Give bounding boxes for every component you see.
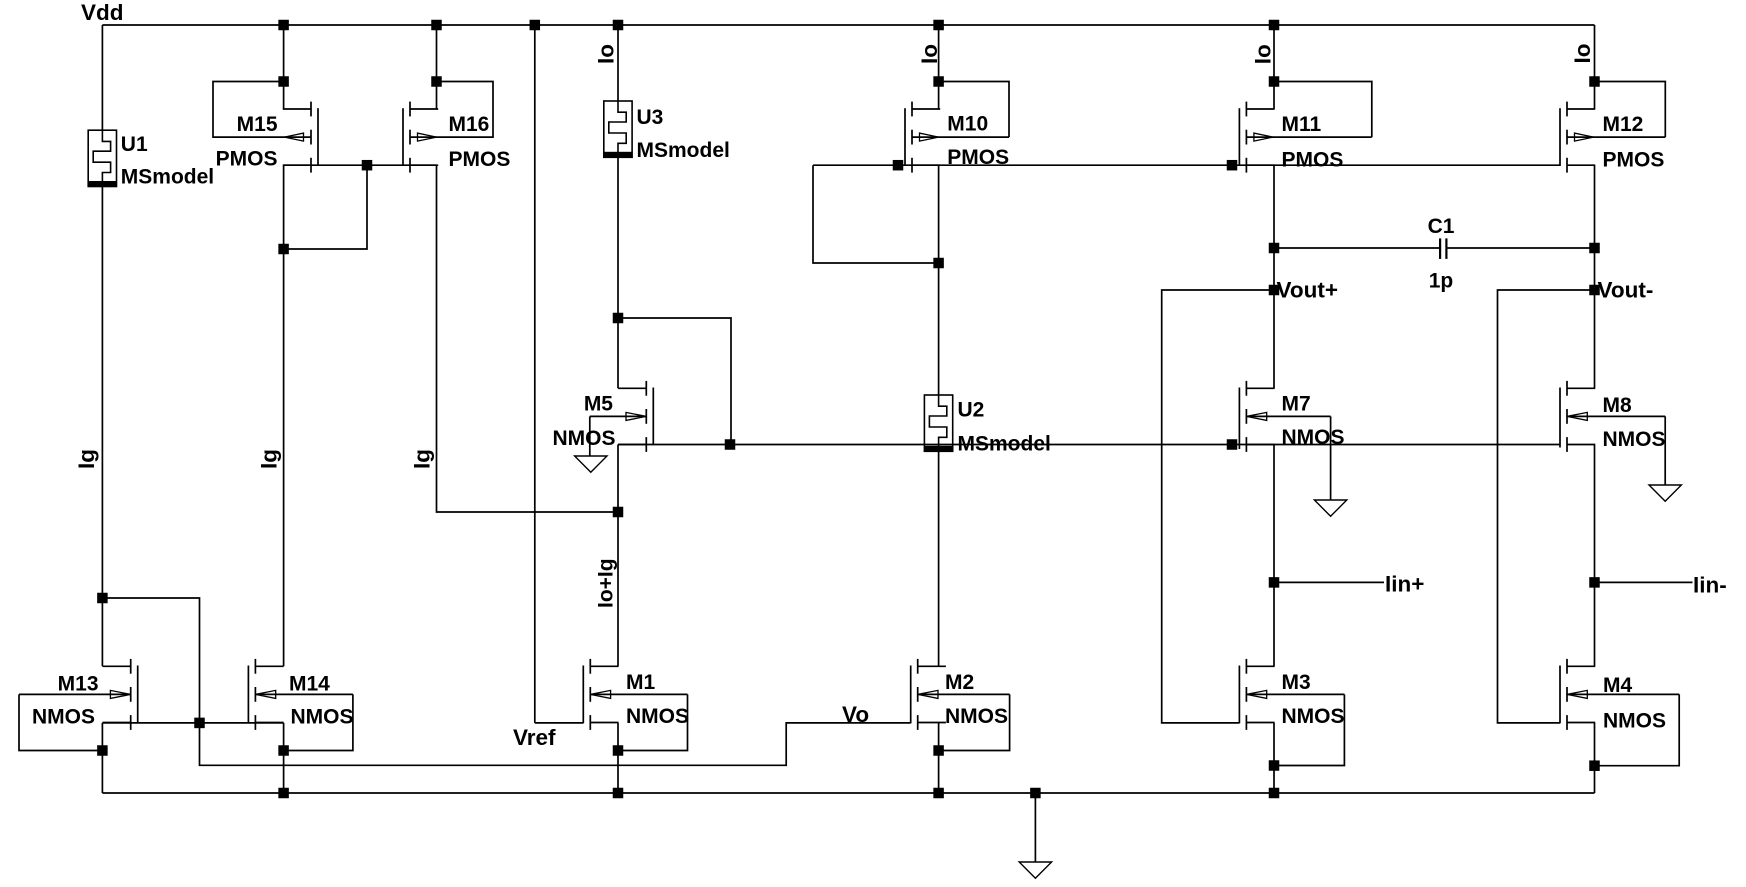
transistor M16 (PMOS): [403, 102, 438, 173]
wire M3 source down: [1273, 723, 1275, 793]
memristor U2: [924, 395, 952, 451]
junction M1 source/rail: [613, 788, 623, 798]
wire Vout+ to M3 gate: [1162, 290, 1274, 723]
value label NMOS (M1): [626, 705, 689, 728]
svg-text:U2: U2: [958, 399, 985, 422]
transistor M3 (NMOS): [1239, 659, 1344, 730]
label M8: [1603, 394, 1632, 417]
wire C1 left: [1274, 247, 1440, 249]
junction M13/M14 gate/Vo: [195, 718, 205, 728]
svg-text:MSmodel: MSmodel: [121, 166, 214, 189]
wire M1 bulk loop: [618, 694, 688, 750]
wire M14 source down: [283, 723, 285, 793]
transistor M10 (PMOS): [905, 102, 1009, 173]
junction M14 source/rail: [279, 788, 289, 798]
junction M14 source/bulk: [279, 746, 289, 756]
svg-text:M15: M15: [237, 113, 278, 136]
transistor M13 (NMOS): [19, 659, 138, 730]
svg-text:NMOS: NMOS: [1282, 426, 1345, 449]
value label NMOS (M14): [291, 706, 354, 729]
junction M5 drain tap: [613, 313, 623, 323]
svg-text:PMOS: PMOS: [449, 148, 511, 171]
svg-text:Iin-: Iin-: [1693, 573, 1727, 598]
transistor M14 (NMOS): [248, 659, 353, 730]
junction C1 left: [1269, 243, 1279, 253]
junction Vdd/M11: [1269, 20, 1279, 30]
wire ground stub: [1034, 793, 1036, 862]
label M1: [626, 671, 655, 694]
junction M4 source/bulk: [1590, 761, 1600, 771]
junction M15 source/bulk: [279, 244, 289, 254]
svg-text:Vout-: Vout-: [1598, 278, 1654, 303]
svg-text:Iin+: Iin+: [1385, 572, 1424, 597]
label M5: [584, 393, 613, 416]
svg-text:M3: M3: [1282, 671, 1311, 694]
transistor M10 drain wire: [938, 25, 940, 109]
label M2: [945, 671, 974, 694]
transistor M11 drain wire: [1273, 25, 1275, 109]
wire U1 to M13 drain: [101, 187, 103, 667]
junction Vo tap: [98, 593, 108, 603]
svg-text:Io: Io: [593, 44, 618, 64]
label M11: [1282, 113, 1322, 136]
label M3: [1282, 671, 1311, 694]
label M12: [1603, 113, 1644, 136]
net label Vout+: [1277, 278, 1338, 303]
wire M15 source down: [283, 165, 285, 666]
svg-text:NMOS: NMOS: [553, 427, 616, 450]
wire M13 bulk loop: [19, 694, 102, 750]
transistor M12 drain wire: [1594, 25, 1596, 109]
value label MSmodel (U2): [958, 433, 1051, 456]
svg-text:NMOS: NMOS: [32, 706, 95, 729]
wire M7 bulk to ground: [1330, 416, 1332, 500]
wire M14 bulk loop: [284, 694, 353, 750]
value label 1p: [1429, 270, 1454, 293]
wire M5 drain loop: [618, 318, 731, 445]
value label MSmodel (U1): [121, 166, 214, 189]
svg-text:M5: M5: [584, 393, 613, 416]
net label Vdd: [81, 0, 124, 25]
value label NMOS (M4): [1603, 710, 1666, 733]
wire M2 source down: [938, 723, 940, 793]
capacitor C1: [1440, 238, 1446, 259]
transistor M12 (PMOS): [1560, 102, 1665, 173]
junction M10 source: [934, 258, 944, 268]
wire ground rail: [102, 792, 1594, 794]
label M15: [237, 113, 278, 136]
junction M1 source/bulk: [613, 746, 623, 756]
value label NMOS (M3): [1282, 705, 1345, 728]
wire M16 source down: [437, 165, 619, 512]
svg-text:Vdd: Vdd: [81, 0, 124, 25]
junction Vdd/M15: [279, 20, 289, 30]
wire U2 to M2 drain: [938, 451, 940, 666]
label M10: [947, 113, 988, 136]
label U1: [121, 133, 148, 156]
ground (main): [1019, 862, 1051, 878]
wire M4 bulk loop: [1595, 694, 1680, 765]
junction M10 bulk: [893, 160, 903, 170]
transistor M15 drain wire: [283, 25, 285, 109]
junction ground tap: [1031, 788, 1041, 798]
wire M4 source down: [1594, 723, 1596, 793]
wire M11 gate loop: [1274, 82, 1372, 138]
svg-text:PMOS: PMOS: [1603, 149, 1665, 172]
wire M8 source down: [1594, 445, 1596, 667]
wire M8 drain up: [1594, 290, 1596, 388]
wire M12 gate loop: [1595, 82, 1666, 138]
svg-text:Ig: Ig: [74, 449, 99, 469]
wire Vref to M1 gate: [535, 722, 584, 724]
label M4: [1603, 674, 1632, 697]
wire M3 bulk loop: [1274, 694, 1344, 765]
wire M10 to U2: [938, 263, 940, 395]
current label Ig (second): [257, 449, 282, 469]
svg-text:Ig: Ig: [257, 449, 282, 469]
svg-text:Io: Io: [917, 44, 942, 64]
transistor M1 (NMOS): [583, 659, 687, 730]
svg-text:M1: M1: [626, 671, 655, 694]
current label Ig (third): [410, 449, 435, 469]
current label Io (fourth): [1570, 44, 1595, 64]
junction M11 bulk: [1227, 160, 1237, 170]
value label PMOS (M11): [1282, 149, 1344, 172]
wire gate line (M5-M7-M8): [618, 444, 1560, 446]
wire Vdd to U3: [617, 25, 619, 101]
junction Vout+: [1269, 285, 1279, 295]
junction M15/M16 bulk: [362, 160, 372, 170]
current label Io (third): [1251, 44, 1276, 64]
svg-text:Vref: Vref: [513, 725, 556, 750]
transistor M2 (NMOS): [911, 659, 1010, 730]
transistor M7 (NMOS): [1239, 381, 1330, 452]
label M7: [1282, 393, 1311, 416]
wire M8 bulk to ground: [1664, 416, 1666, 485]
junction M15 gate/drain: [279, 77, 289, 87]
ground (M7): [1314, 500, 1346, 516]
net label Vref: [513, 725, 556, 750]
svg-text:MSmodel: MSmodel: [958, 433, 1051, 456]
transistor M15 (PMOS): [283, 102, 318, 173]
label U3: [637, 106, 664, 129]
svg-text:MSmodel: MSmodel: [637, 139, 730, 162]
value label NMOS (M2): [945, 705, 1008, 728]
current label Ig (left): [74, 449, 99, 469]
transistor M4 (NMOS): [1560, 659, 1679, 730]
value label NMOS (M7): [1282, 426, 1345, 449]
value label PMOS (M16): [449, 148, 511, 171]
wire U3 to M5 drain: [617, 157, 619, 388]
svg-text:Io+Ig: Io+Ig: [595, 558, 618, 608]
wire Vout- to M4 gate: [1498, 290, 1595, 723]
junction Iin-: [1590, 578, 1600, 588]
svg-text:1p: 1p: [1429, 270, 1454, 293]
wire Vdd rail: [102, 24, 1594, 26]
value label MSmodel (U3): [637, 139, 730, 162]
wire M7 source down: [1273, 445, 1275, 667]
wire Vdd to U1: [101, 25, 103, 130]
svg-text:NMOS: NMOS: [1603, 428, 1666, 451]
wire M5 gate to ground: [589, 416, 591, 456]
wire Vo net: [102, 598, 910, 765]
wire M7 drain up: [1273, 290, 1275, 388]
svg-text:Vo: Vo: [842, 702, 869, 727]
ground (M5): [575, 456, 607, 472]
transistor M8 (NMOS): [1560, 381, 1665, 452]
svg-text:NMOS: NMOS: [1282, 705, 1345, 728]
wire M1 source down: [617, 723, 619, 793]
value label PMOS (M12): [1603, 149, 1665, 172]
wire M15 gate loop: [213, 82, 285, 138]
memristor U1: [88, 130, 116, 186]
value label NMOS (M5): [553, 427, 616, 450]
wire Iin-: [1595, 581, 1693, 583]
junction Iin+: [1269, 578, 1279, 588]
value label NMOS (M8): [1603, 428, 1666, 451]
ground (M8): [1649, 485, 1681, 501]
wire M10 bulk line: [813, 164, 1560, 166]
wire Io+Ig column: [617, 445, 619, 667]
wire Iin+: [1274, 581, 1384, 583]
junction M3 source/bulk: [1269, 761, 1279, 771]
svg-text:U1: U1: [121, 133, 148, 156]
svg-text:NMOS: NMOS: [291, 706, 354, 729]
svg-text:PMOS: PMOS: [216, 148, 278, 171]
label M13: [58, 673, 99, 696]
svg-text:M12: M12: [1603, 113, 1644, 136]
svg-text:PMOS: PMOS: [1282, 149, 1344, 172]
value label NMOS (M13): [32, 706, 95, 729]
wire Vref column: [534, 25, 536, 723]
junction Vdd/M16: [432, 20, 442, 30]
label U2: [958, 399, 985, 422]
svg-text:M8: M8: [1603, 394, 1632, 417]
junction Vdd/U3: [613, 20, 623, 30]
junction M2 source/rail: [934, 788, 944, 798]
wire M16 gate loop: [435, 82, 493, 138]
svg-text:Io: Io: [1251, 44, 1276, 64]
wire M15/M16 bulk tie: [284, 165, 437, 249]
svg-text:M4: M4: [1603, 674, 1632, 697]
junction M3 source/rail: [1269, 788, 1279, 798]
svg-text:M7: M7: [1282, 393, 1311, 416]
current label Io (first): [593, 44, 618, 64]
transistor M16 drain wire: [436, 25, 438, 109]
junction M7 gate line: [1227, 440, 1237, 450]
junction M5 drain loop/gate line: [725, 440, 735, 450]
svg-text:Ig: Ig: [410, 449, 435, 469]
svg-text:C1: C1: [1428, 215, 1455, 238]
junction Vout-: [1590, 285, 1600, 295]
wire M10 source down: [938, 165, 940, 263]
junction Vdd/M10: [934, 20, 944, 30]
svg-text:M16: M16: [449, 113, 490, 136]
label M16: [449, 113, 490, 136]
wire M10 gate loop: [939, 82, 1009, 138]
junction C1 right: [1590, 243, 1600, 253]
junction M12 gate/drain: [1590, 77, 1600, 87]
junction M10 gate/drain: [934, 77, 944, 87]
current label Io (second): [917, 44, 942, 64]
svg-text:M11: M11: [1282, 113, 1322, 136]
current label Io+Ig: [595, 558, 618, 608]
transistor M5 (NMOS): [590, 381, 654, 452]
value label PMOS (M15): [216, 148, 278, 171]
wire C1 right: [1446, 247, 1594, 249]
junction Io+Ig/M16 wire: [613, 507, 623, 517]
wire M13 source down: [101, 723, 103, 793]
svg-text:M2: M2: [945, 671, 974, 694]
net label Iin-: [1693, 573, 1727, 598]
svg-text:M14: M14: [289, 673, 330, 696]
transistor M11 (PMOS): [1239, 102, 1371, 173]
svg-text:NMOS: NMOS: [945, 705, 1008, 728]
svg-text:M13: M13: [58, 673, 99, 696]
junction M2 source/bulk: [934, 746, 944, 756]
svg-text:NMOS: NMOS: [1603, 710, 1666, 733]
svg-text:Io: Io: [1570, 44, 1595, 64]
wire M2 bulk loop: [939, 694, 1010, 750]
junction M13 source/bulk: [98, 746, 108, 756]
wire M13/M14 gate tie: [102, 722, 283, 724]
junction Vdd/Vref column: [530, 20, 540, 30]
junction M11 gate/drain: [1269, 77, 1279, 87]
svg-text:NMOS: NMOS: [626, 705, 689, 728]
net label Vo: [842, 702, 869, 727]
net label Vout-: [1598, 278, 1654, 303]
net label Iin+: [1385, 572, 1424, 597]
svg-text:U3: U3: [637, 106, 664, 129]
wire M10 bulk to source: [813, 165, 939, 263]
junction M16 gate/drain: [432, 77, 442, 87]
svg-text:M10: M10: [947, 113, 988, 136]
wire M12 source down: [1594, 165, 1596, 290]
label C1: [1428, 215, 1455, 238]
label M14: [289, 673, 330, 696]
wire M11 source down: [1273, 165, 1275, 290]
svg-text:Vout+: Vout+: [1277, 278, 1338, 303]
memristor U3: [604, 101, 632, 157]
value label PMOS (M10): [947, 146, 1009, 169]
